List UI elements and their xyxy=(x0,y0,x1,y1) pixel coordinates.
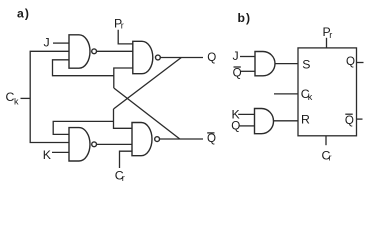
label Cr (a) xyxy=(115,169,125,183)
wire Cr pin xyxy=(325,136,327,145)
wire Pr to G3 xyxy=(118,30,133,44)
svg-text:Q: Q xyxy=(207,132,216,145)
nand gate G2 xyxy=(69,128,97,161)
svg-text:J: J xyxy=(233,49,239,63)
wire G2 output to G4 xyxy=(97,143,133,145)
and gate A1 xyxy=(255,52,275,76)
wire A1 output to S xyxy=(275,63,298,65)
wire node Qbar vertical into G3 xyxy=(114,68,133,88)
svg-text:Q: Q xyxy=(207,51,216,64)
flip-flop box U1 xyxy=(298,48,357,136)
wire K to A2 xyxy=(238,113,254,115)
label Pr (b) xyxy=(323,25,333,40)
svg-text:R: R xyxy=(301,113,310,127)
svg-text:r: r xyxy=(122,173,125,183)
label Cr (b) xyxy=(322,148,332,162)
svg-text:Q: Q xyxy=(345,114,354,127)
svg-text:Q: Q xyxy=(346,55,355,68)
label Pr (a) xyxy=(114,16,124,30)
nand gate G4 xyxy=(132,123,160,156)
wire G1 output to G3 xyxy=(97,50,133,52)
svg-text:r: r xyxy=(121,21,124,31)
wire Qbar output xyxy=(160,138,204,140)
svg-text:Q: Q xyxy=(233,66,242,79)
wire J to A1 xyxy=(240,56,255,58)
wire J to G1 xyxy=(53,42,69,44)
wire diagonal Q cross-coupling xyxy=(114,58,182,110)
wire K to G2 xyxy=(52,151,69,153)
svg-text:Q: Q xyxy=(231,119,240,132)
and gate A2 xyxy=(255,109,274,134)
wire diagonal Qbar cross-coupling xyxy=(114,88,180,139)
wire A2 output to R xyxy=(274,120,299,122)
wire node Q vertical into G4 xyxy=(114,109,133,128)
label Ck (a) xyxy=(6,90,20,107)
nand gate G3 xyxy=(133,41,161,73)
svg-text:J: J xyxy=(44,36,50,50)
wire G1 feedback loop from node Qbar xyxy=(53,60,114,76)
pin label Qbar (b) xyxy=(345,114,354,127)
label Qbar (a) xyxy=(207,132,216,145)
svg-text:r: r xyxy=(329,30,332,40)
svg-text:K: K xyxy=(43,148,52,162)
wire Cr to G4 xyxy=(120,151,133,168)
wire Ck bus vertical to G1 and G2 xyxy=(30,51,69,142)
svg-text:r: r xyxy=(329,153,332,163)
pin label Ck (b) xyxy=(301,87,313,102)
svg-text:k: k xyxy=(14,97,19,107)
svg-text:k: k xyxy=(308,92,313,102)
svg-text:b): b) xyxy=(238,11,252,25)
svg-text:a): a) xyxy=(17,6,30,20)
wire Q output xyxy=(160,57,203,59)
wire Pr pin xyxy=(326,38,328,48)
svg-text:S: S xyxy=(302,58,310,72)
label Qbar input (b) xyxy=(233,66,242,79)
wire Qbar to A1 xyxy=(241,70,255,72)
nand gate G1 xyxy=(69,35,97,68)
wire G2 feedback loop from node Q xyxy=(53,121,113,134)
wire Q tick xyxy=(357,62,364,64)
wire Ck input (b) xyxy=(274,93,298,95)
wire Qbar tick xyxy=(357,118,363,120)
wire Ck label tap xyxy=(21,97,31,99)
wire Q to A2 xyxy=(239,125,255,127)
